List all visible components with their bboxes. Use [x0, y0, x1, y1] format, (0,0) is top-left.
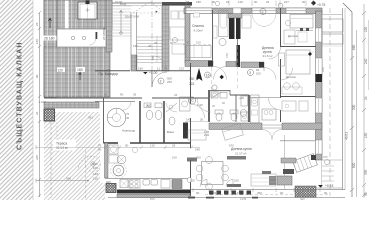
svg-text:247: 247: [284, 0, 289, 4]
svg-text:Асансьор: Асансьор: [122, 129, 136, 133]
svg-text:26: 26: [186, 0, 190, 4]
svg-text:240: 240: [364, 58, 368, 64]
svg-text:90: 90: [324, 191, 328, 195]
svg-text:150: 150: [364, 132, 368, 138]
svg-text:2.20: 2.20: [204, 133, 210, 137]
svg-text:26: 26: [35, 111, 39, 115]
svg-text:+1.00: +1.00: [149, 71, 158, 75]
svg-text:26: 26: [154, 41, 158, 45]
svg-text:90: 90: [364, 192, 368, 196]
svg-text:240: 240: [321, 67, 325, 72]
svg-text:90: 90: [280, 191, 284, 195]
svg-text:45: 45: [126, 116, 130, 120]
svg-text:СЪЩЕСТВУВАЩ КАЛКАН: СЪЩЕСТВУВАЩ КАЛКАН: [17, 42, 24, 151]
svg-text:250: 250: [167, 80, 172, 84]
svg-text:+0.15: +0.15: [325, 184, 334, 188]
svg-text:207: 207: [298, 191, 303, 195]
svg-text:1335: 1335: [240, 197, 247, 200]
svg-text:670: 670: [229, 144, 234, 148]
svg-text:150: 150: [364, 26, 368, 32]
svg-text:45: 45: [212, 104, 215, 108]
svg-text:120: 120: [238, 0, 243, 4]
svg-text:Детска: Детска: [286, 75, 296, 79]
svg-text:3: 3: [249, 71, 251, 75]
svg-text:Спалня: Спалня: [192, 24, 204, 28]
svg-text:341: 341: [88, 116, 93, 120]
svg-text:ш90: ш90: [239, 96, 245, 100]
svg-text:270: 270: [225, 53, 229, 58]
svg-text:100: 100: [196, 41, 201, 45]
svg-text:32.43 м²: 32.43 м²: [56, 146, 68, 150]
svg-text:21.57 м²: 21.57 м²: [235, 152, 246, 156]
svg-text:26 180: 26 180: [44, 37, 54, 41]
svg-text:500: 500: [352, 104, 356, 110]
svg-text:90: 90: [125, 144, 129, 148]
svg-text:218: 218: [189, 82, 195, 86]
svg-text:340: 340: [66, 177, 71, 181]
svg-text:26: 26: [174, 93, 178, 97]
svg-text:10x17.5/28: 10x17.5/28: [125, 15, 139, 19]
svg-text:26: 26: [200, 118, 204, 122]
svg-text:150: 150: [323, 155, 328, 159]
svg-text:90: 90: [186, 41, 190, 45]
svg-text:46.81: 46.81: [345, 132, 349, 140]
svg-text:240: 240: [213, 191, 218, 195]
svg-text:Пр. Коридор: Пр. Коридор: [99, 72, 119, 76]
svg-text:195: 195: [133, 44, 138, 48]
svg-text:50: 50: [98, 148, 102, 152]
svg-text:300: 300: [196, 156, 201, 160]
svg-text:100: 100: [172, 156, 177, 160]
svg-text:335: 335: [364, 169, 368, 175]
svg-text:460: 460: [300, 197, 305, 200]
svg-text:90: 90: [170, 41, 174, 45]
svg-text:180: 180: [35, 39, 39, 44]
svg-text:90: 90: [120, 93, 124, 97]
svg-text:26: 26: [148, 44, 152, 48]
svg-text:11: 11: [157, 66, 160, 70]
svg-text:74: 74: [164, 66, 168, 70]
svg-text:150: 150: [190, 179, 195, 183]
svg-text:90: 90: [212, 0, 216, 4]
svg-text:1.40: 1.40: [197, 103, 203, 107]
svg-text:150: 150: [234, 179, 239, 183]
svg-text:180: 180: [196, 0, 201, 4]
svg-text:123: 123: [235, 191, 240, 195]
svg-text:26: 26: [172, 144, 176, 148]
svg-text:Тераса: Тераса: [56, 142, 67, 146]
svg-text:140: 140: [93, 172, 98, 176]
svg-text:26 180/90: 26 180/90: [102, 27, 106, 40]
svg-text:90: 90: [222, 101, 225, 105]
svg-text:620: 620: [352, 162, 356, 168]
svg-text:35: 35: [133, 93, 137, 97]
svg-text:21.8 м²: 21.8 м²: [263, 54, 273, 58]
svg-text:42: 42: [104, 93, 108, 97]
svg-text:26: 26: [35, 22, 39, 26]
svg-text:9.20м²: 9.20м²: [194, 29, 203, 33]
svg-text:2: 2: [160, 80, 162, 84]
svg-text:200: 200: [256, 72, 261, 76]
svg-text:+0.75: +0.75: [317, 3, 326, 7]
svg-text:180: 180: [77, 68, 83, 72]
svg-text:180: 180: [138, 66, 143, 70]
svg-text:90: 90: [196, 191, 200, 195]
svg-text:120: 120: [150, 144, 155, 148]
svg-text:±0.00: ±0.00: [115, 0, 123, 4]
svg-text:2: 2: [262, 10, 264, 14]
svg-text:Дневна кухня: Дневна кухня: [231, 147, 252, 151]
svg-text:870: 870: [150, 197, 155, 200]
svg-text:90: 90: [302, 0, 306, 4]
svg-text:26: 26: [266, 0, 270, 4]
svg-text:90: 90: [254, 0, 258, 4]
svg-text:90: 90: [35, 74, 39, 78]
svg-text:Баня: Баня: [167, 130, 174, 134]
svg-text:350: 350: [257, 191, 262, 195]
svg-text:345: 345: [35, 155, 39, 160]
svg-text:660: 660: [352, 44, 356, 50]
svg-text:213: 213: [179, 66, 184, 70]
svg-text:248: 248: [195, 148, 200, 152]
svg-text:ЩО: ЩО: [106, 180, 112, 184]
svg-text:24: 24: [364, 96, 368, 100]
svg-text:750: 750: [189, 77, 195, 81]
svg-text:16: 16: [206, 74, 210, 78]
svg-text:Детска: Детска: [288, 34, 298, 38]
svg-text:105: 105: [93, 166, 98, 170]
svg-text:120: 120: [58, 68, 64, 72]
svg-text:115: 115: [93, 177, 98, 181]
svg-text:1.100: 1.100: [39, 100, 47, 104]
